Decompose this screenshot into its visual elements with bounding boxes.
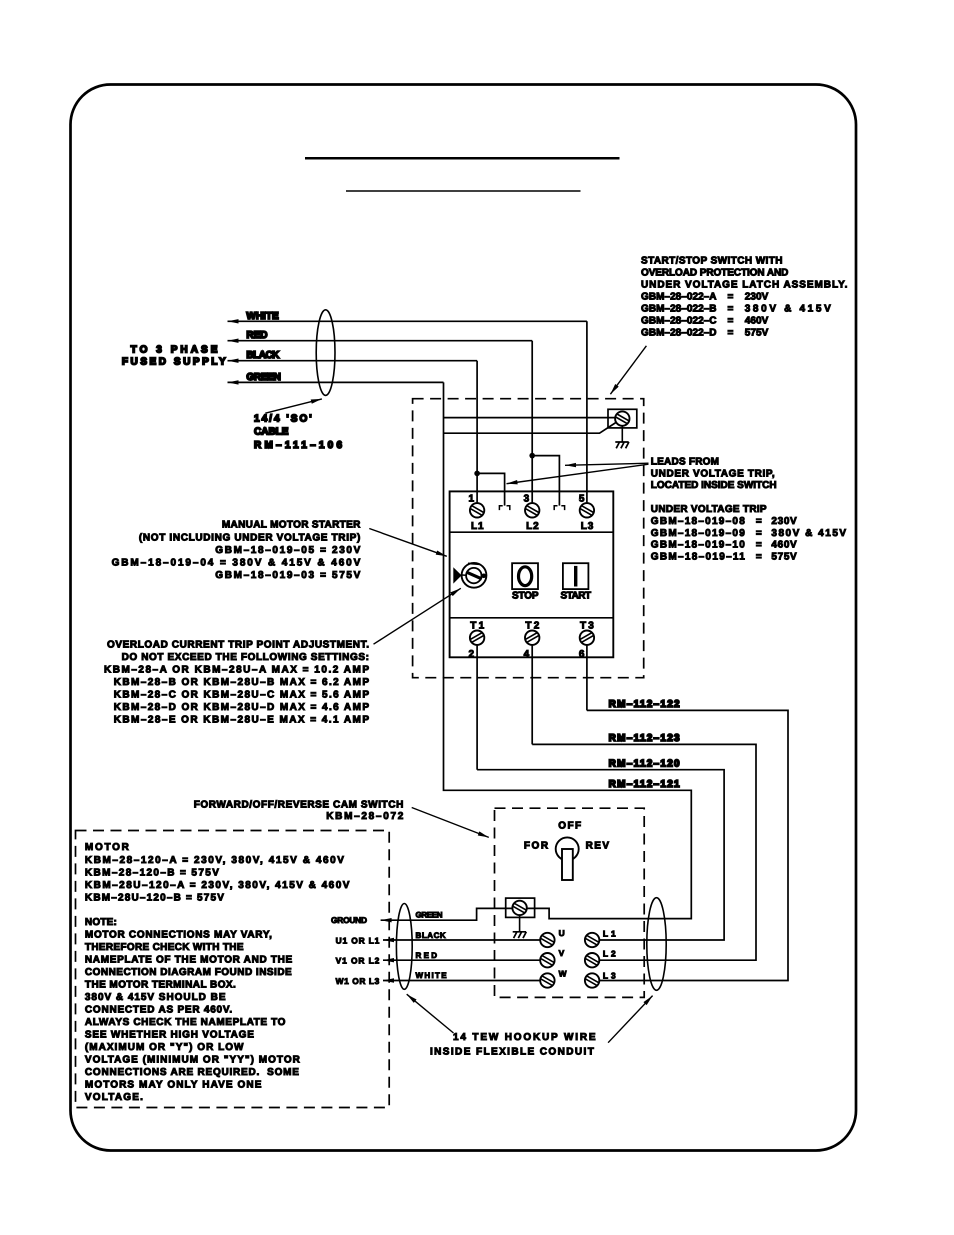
svg-text:575V: 575V: [745, 327, 769, 338]
svg-text:GBM–18–019–09: GBM–18–019–09: [651, 528, 745, 539]
svg-text:GBM–18–019–03 = 575V: GBM–18–019–03 = 575V: [215, 570, 360, 581]
svg-text:KBM–28–072: KBM–28–072: [326, 811, 404, 822]
svg-text:380V & 415V SHOULD BE: 380V & 415V SHOULD BE: [85, 992, 226, 1003]
svg-text:KBM–28–A OR KBM–28U–A MAX = 10: KBM–28–A OR KBM–28U–A MAX = 10.2 AMP: [104, 665, 369, 676]
svg-text:GBM–28–022–C: GBM–28–022–C: [641, 315, 717, 326]
svg-text:FORWARD/OFF/REVERSE CAM SWITCH: FORWARD/OFF/REVERSE CAM SWITCH: [194, 800, 404, 811]
svg-text:CONNECTIONS ARE REQUIRED. SOM: CONNECTIONS ARE REQUIRED. SOME: [85, 1067, 299, 1078]
svg-text:(MAXIMUM OR "Y") OR LOW: (MAXIMUM OR "Y") OR LOW: [85, 1042, 244, 1053]
svg-text:NAMEPLATE OF THE MOTOR AND THE: NAMEPLATE OF THE MOTOR AND THE: [85, 955, 293, 966]
svg-text:START/STOP SWITCH WITH: START/STOP SWITCH WITH: [641, 256, 783, 267]
svg-text:FOR: FOR: [524, 840, 549, 851]
svg-text:=: =: [756, 516, 762, 527]
svg-text:575V: 575V: [771, 552, 797, 563]
svg-text:WHITE: WHITE: [246, 311, 279, 322]
svg-text:CABLE: CABLE: [254, 427, 289, 438]
svg-text:KBM–28–E OR KBM–28U–E MAX = 4.: KBM–28–E OR KBM–28U–E MAX = 4.1 AMP: [114, 714, 370, 725]
svg-text:BLACK: BLACK: [416, 931, 446, 940]
svg-text:380V & 415V: 380V & 415V: [745, 304, 831, 315]
svg-text:THE MOTOR TERMINAL BOX.: THE MOTOR TERMINAL BOX.: [85, 980, 236, 991]
svg-text:MOTOR: MOTOR: [85, 842, 130, 853]
svg-text:L1: L1: [471, 521, 484, 532]
svg-text:=: =: [728, 304, 734, 315]
svg-text:GBM–18–019–11: GBM–18–019–11: [651, 552, 745, 563]
svg-text:WHITE: WHITE: [416, 971, 448, 980]
svg-text:460V: 460V: [771, 540, 797, 551]
svg-text:OVERLOAD PROTECTION AND: OVERLOAD PROTECTION AND: [641, 268, 788, 279]
svg-text:L3: L3: [603, 970, 616, 980]
svg-text:VOLTAGE.: VOLTAGE.: [85, 1092, 143, 1103]
svg-text:DO NOT EXCEED THE FOLLOWING SE: DO NOT EXCEED THE FOLLOWING SETTINGS:: [122, 652, 369, 663]
svg-text:380V & 415V: 380V & 415V: [771, 528, 846, 539]
svg-text:V1 OR L2: V1 OR L2: [336, 956, 380, 966]
svg-text:OFF: OFF: [558, 820, 581, 831]
svg-text:=: =: [756, 552, 762, 563]
svg-text:=: =: [756, 528, 762, 539]
svg-text:=: =: [728, 327, 734, 338]
svg-text:4: 4: [524, 649, 530, 660]
svg-text:UNDER VOLTAGE TRIP: UNDER VOLTAGE TRIP: [651, 504, 767, 515]
svg-text:GBM–18–019–08: GBM–18–019–08: [651, 516, 745, 527]
svg-text:L1: L1: [603, 928, 616, 938]
svg-text:U1 OR L1: U1 OR L1: [336, 935, 380, 945]
svg-text:THEREFORE CHECK WITH THE: THEREFORE CHECK WITH THE: [85, 942, 244, 953]
svg-text:KBM–28–B OR KBM–28U–B MAX = 6.: KBM–28–B OR KBM–28U–B MAX = 6.2 AMP: [114, 677, 370, 688]
svg-text:W1 OR L3: W1 OR L3: [336, 976, 380, 986]
svg-text:CONNECTED AS PER 460V.: CONNECTED AS PER 460V.: [85, 1005, 233, 1016]
svg-text:REV: REV: [586, 840, 610, 851]
svg-text:RED: RED: [246, 330, 267, 341]
svg-text:460V: 460V: [745, 315, 769, 326]
svg-text:MOTORS MAY ONLY HAVE ONE: MOTORS MAY ONLY HAVE ONE: [85, 1080, 262, 1091]
svg-text:LOCATED INSIDE SWITCH: LOCATED INSIDE SWITCH: [651, 480, 777, 491]
svg-text:GBM–18–019–10: GBM–18–019–10: [651, 540, 745, 551]
svg-text:UNDER VOLTAGE TRIP,: UNDER VOLTAGE TRIP,: [651, 468, 775, 479]
svg-text:GBM–28–022–D: GBM–28–022–D: [641, 327, 717, 338]
svg-text:GBM–18–019–04 = 380V & 415V &: GBM–18–019–04 = 380V & 415V & 460V: [112, 557, 361, 568]
svg-text:MANUAL MOTOR STARTER: MANUAL MOTOR STARTER: [222, 520, 361, 531]
svg-text:1: 1: [469, 493, 475, 504]
svg-text:GREEN: GREEN: [246, 372, 281, 383]
svg-text:OVERLOAD CURRENT TRIP POINT AD: OVERLOAD CURRENT TRIP POINT ADJUSTMENT.: [107, 640, 369, 651]
svg-text:(NOT INCLUDING UNDER VOLTAGE T: (NOT INCLUDING UNDER VOLTAGE TRIP): [139, 532, 360, 543]
svg-text:KBM–28–D OR KBM–28U–D MAX = 4.: KBM–28–D OR KBM–28U–D MAX = 4.6 AMP: [114, 702, 370, 713]
svg-text:L2: L2: [603, 948, 616, 958]
svg-text:=: =: [756, 540, 762, 551]
svg-text:ALWAYS CHECK THE NAMEPLATE TO: ALWAYS CHECK THE NAMEPLATE TO: [85, 1017, 286, 1028]
svg-text:2: 2: [469, 649, 475, 660]
svg-text:RM–112–121: RM–112–121: [609, 779, 680, 790]
svg-text:5: 5: [579, 493, 585, 504]
svg-text:FUSED SUPPLY: FUSED SUPPLY: [122, 357, 226, 368]
svg-text:GBM–28–022–A: GBM–28–022–A: [641, 292, 717, 303]
svg-text:230V: 230V: [771, 516, 797, 527]
svg-text:=: =: [728, 292, 734, 303]
svg-text:GREEN: GREEN: [416, 911, 443, 920]
svg-text:6: 6: [579, 649, 585, 660]
svg-text:14/4 'SO': 14/4 'SO': [254, 414, 312, 425]
svg-text:GBM–28–022–B: GBM–28–022–B: [641, 304, 717, 315]
svg-text:GBM–18–019–05 = 230V: GBM–18–019–05 = 230V: [215, 545, 360, 556]
svg-text:KBM–28–120–B = 575V: KBM–28–120–B = 575V: [85, 868, 219, 879]
svg-text:V: V: [559, 948, 565, 958]
svg-text:LEADS FROM: LEADS FROM: [651, 457, 719, 468]
svg-text:KBM–28–120–A = 230V, 380V, 415: KBM–28–120–A = 230V, 380V, 415V & 460V: [85, 855, 344, 866]
svg-text:=: =: [728, 315, 734, 326]
svg-text:L3: L3: [581, 521, 594, 532]
svg-text:14 TEW HOOKUP WIRE: 14 TEW HOOKUP WIRE: [453, 1032, 596, 1043]
svg-text:START: START: [561, 590, 592, 601]
svg-text:KBM–28U–120–B = 575V: KBM–28U–120–B = 575V: [85, 893, 224, 904]
svg-text:U: U: [559, 928, 565, 938]
svg-text:MOTOR CONNECTIONS MAY VARY,: MOTOR CONNECTIONS MAY VARY,: [85, 930, 272, 941]
svg-text:UNDER VOLTAGE LATCH ASSEMBLY.: UNDER VOLTAGE LATCH ASSEMBLY.: [641, 280, 848, 291]
svg-text:W: W: [559, 968, 567, 978]
svg-text:L2: L2: [526, 521, 539, 532]
svg-text:230V: 230V: [745, 292, 769, 303]
svg-text:CONNECTION DIAGRAM FOUND INSID: CONNECTION DIAGRAM FOUND INSIDE: [85, 967, 292, 978]
svg-text:GROUND: GROUND: [331, 915, 367, 925]
svg-text:NOTE:: NOTE:: [85, 917, 117, 928]
svg-text:SEE WHETHER HIGH VOLTAGE: SEE WHETHER HIGH VOLTAGE: [85, 1030, 254, 1041]
svg-text:RM–112–122: RM–112–122: [609, 699, 680, 710]
svg-text:INSIDE FLEXIBLE CONDUIT: INSIDE FLEXIBLE CONDUIT: [430, 1046, 594, 1057]
svg-text:BLACK: BLACK: [246, 350, 280, 361]
svg-text:RM–111–106: RM–111–106: [254, 440, 342, 451]
svg-text:KBM–28–C OR KBM–28U–C MAX = 5.: KBM–28–C OR KBM–28U–C MAX = 5.6 AMP: [114, 690, 370, 701]
svg-text:STOP: STOP: [512, 590, 539, 601]
svg-text:TO 3 PHASE: TO 3 PHASE: [131, 344, 218, 355]
svg-text:RM–112–123: RM–112–123: [609, 733, 680, 744]
svg-text:3: 3: [524, 493, 530, 504]
svg-text:RED: RED: [416, 951, 438, 960]
svg-text:KBM–28U–120–A = 230V, 380V, 41: KBM–28U–120–A = 230V, 380V, 415V & 460V: [85, 880, 350, 891]
svg-text:VOLTAGE (MINIMUM OR "YY") MOTO: VOLTAGE (MINIMUM OR "YY") MOTOR: [85, 1055, 301, 1066]
svg-text:RM–112–120: RM–112–120: [609, 758, 680, 769]
